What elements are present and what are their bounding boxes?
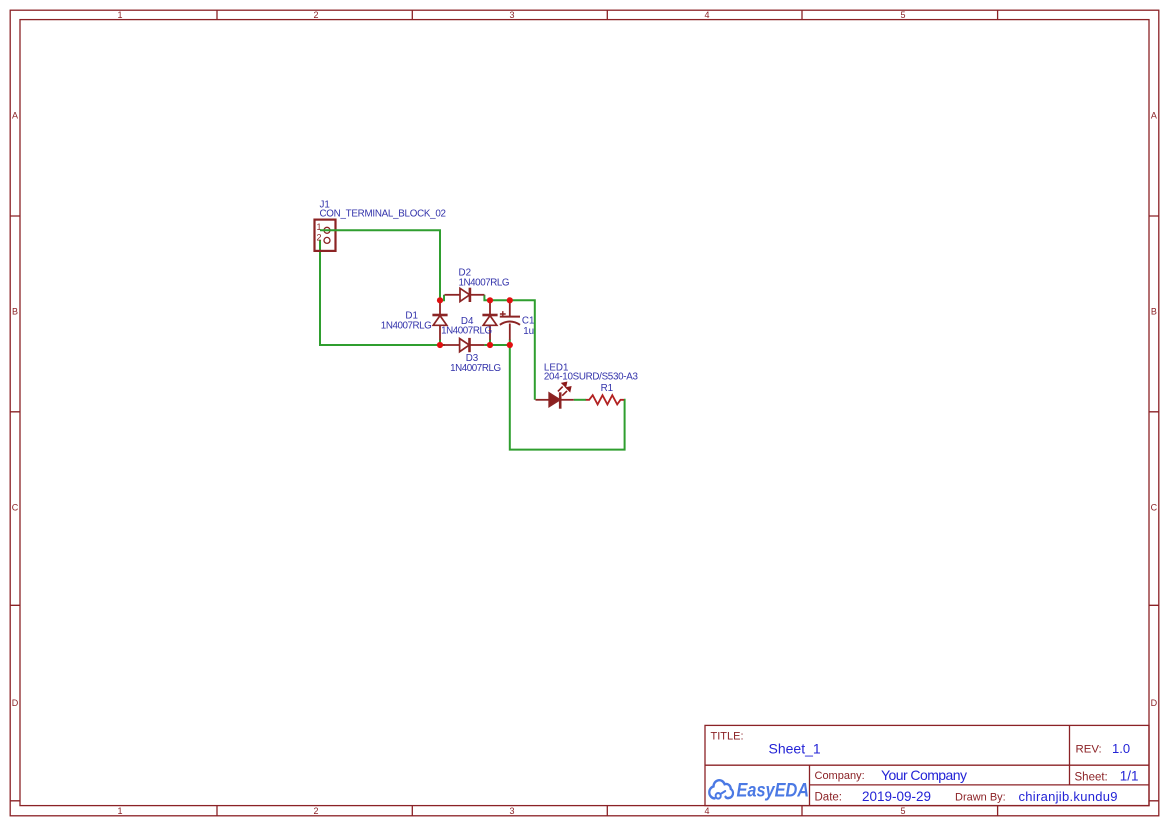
LED1 symbol [536,392,574,408]
svg-text:D: D [1151,698,1158,708]
svg-text:A: A [12,111,18,121]
connector J1 [315,220,336,251]
svg-text:2: 2 [317,233,322,243]
ruler letters left [12,111,19,709]
wire D1 bottom stub [439,340,441,346]
svg-text:2: 2 [313,10,318,20]
junction dot bottom-mid [487,342,493,348]
bottom ruler ticks [217,806,998,816]
svg-text:D: D [12,698,19,708]
svg-text:3: 3 [509,806,514,816]
wire bottom rail segments [440,344,510,346]
svg-text:4: 4 [704,806,709,816]
diode D4 (middle, vertical) [482,300,497,340]
svg-text:A: A [1151,111,1157,121]
svg-text:C: C [1151,503,1158,513]
svg-text:1N4007RLG: 1N4007RLG [459,277,510,288]
svg-text:2: 2 [313,806,318,816]
svg-text:B: B [1151,307,1157,317]
svg-text:1: 1 [117,806,122,816]
wire top rail to LED drop [490,300,535,400]
plus sign [500,311,506,317]
svg-text:TITLE:: TITLE: [711,730,744,742]
svg-text:1N4007RLG: 1N4007RLG [441,325,492,336]
right ruler ticks [1149,216,1159,801]
svg-text:4: 4 [704,10,709,20]
wire net1 J1 pin1 to bridge top [320,230,440,300]
diode D2 (top, horizontal) [445,288,485,302]
svg-text:1N4007RLG: 1N4007RLG [381,321,432,332]
wire jog right of D2 [484,295,489,301]
wire LED to R1 [574,399,586,401]
svg-text:5: 5 [900,10,905,20]
ruler letters right [1151,111,1158,709]
wire jog left of D2 [440,295,444,301]
junction dot bottom-right [507,342,513,348]
ruler numbers bottom [117,806,905,816]
resistor R1 [586,395,624,404]
svg-text:Drawn By:: Drawn By: [955,791,1006,803]
svg-text:Your Company: Your Company [881,767,967,783]
svg-text:Sheet_1: Sheet_1 [769,740,821,756]
LED1 light arrows [558,382,571,396]
svg-text:CON_TERMINAL_BLOCK_02: CON_TERMINAL_BLOCK_02 [320,209,447,220]
svg-text:2019-09-29: 2019-09-29 [862,789,931,804]
junction dot top-right [507,297,513,303]
svg-text:Date:: Date: [815,791,843,803]
wire J1 pin2 down and bottom rail [320,240,440,345]
junction dot bottom-left [437,342,443,348]
svg-text:chiranjib.kundu9: chiranjib.kundu9 [1019,789,1118,804]
wire C1 bottom stub [509,340,511,346]
title block [705,725,1149,805]
svg-text:Sheet:: Sheet: [1075,771,1108,783]
svg-text:1: 1 [117,10,122,20]
left ruler ticks [10,216,20,801]
EasyEDA logo cloud [709,780,733,798]
svg-text:3: 3 [509,10,514,20]
svg-text:204-10SURD/S530-A3: 204-10SURD/S530-A3 [544,372,639,383]
ruler numbers top [117,10,905,20]
svg-text:B: B [12,307,18,317]
wire R1 to bottom loop [510,345,625,450]
svg-text:C: C [12,503,19,513]
diode D3 (bottom, horizontal) [442,338,484,352]
wire D4 bottom stub [489,340,491,346]
svg-text:C1: C1 [522,316,535,327]
capacitor C1 (polarized) [500,300,520,340]
diode D1 (left, vertical) [432,300,447,340]
svg-text:R1: R1 [601,383,614,394]
junction dot top-mid [487,297,493,303]
svg-text:REV:: REV: [1076,744,1102,756]
top ruler ticks [217,10,998,19]
svg-text:1.0: 1.0 [1112,741,1130,756]
svg-text:1/1: 1/1 [1120,769,1139,784]
svg-text:Company:: Company: [815,770,865,782]
junction dot top-left [437,297,443,303]
svg-text:1N4007RLG: 1N4007RLG [450,363,501,374]
svg-text:1u: 1u [523,326,534,337]
svg-text:EasyEDA: EasyEDA [736,779,809,800]
svg-text:5: 5 [900,806,905,816]
